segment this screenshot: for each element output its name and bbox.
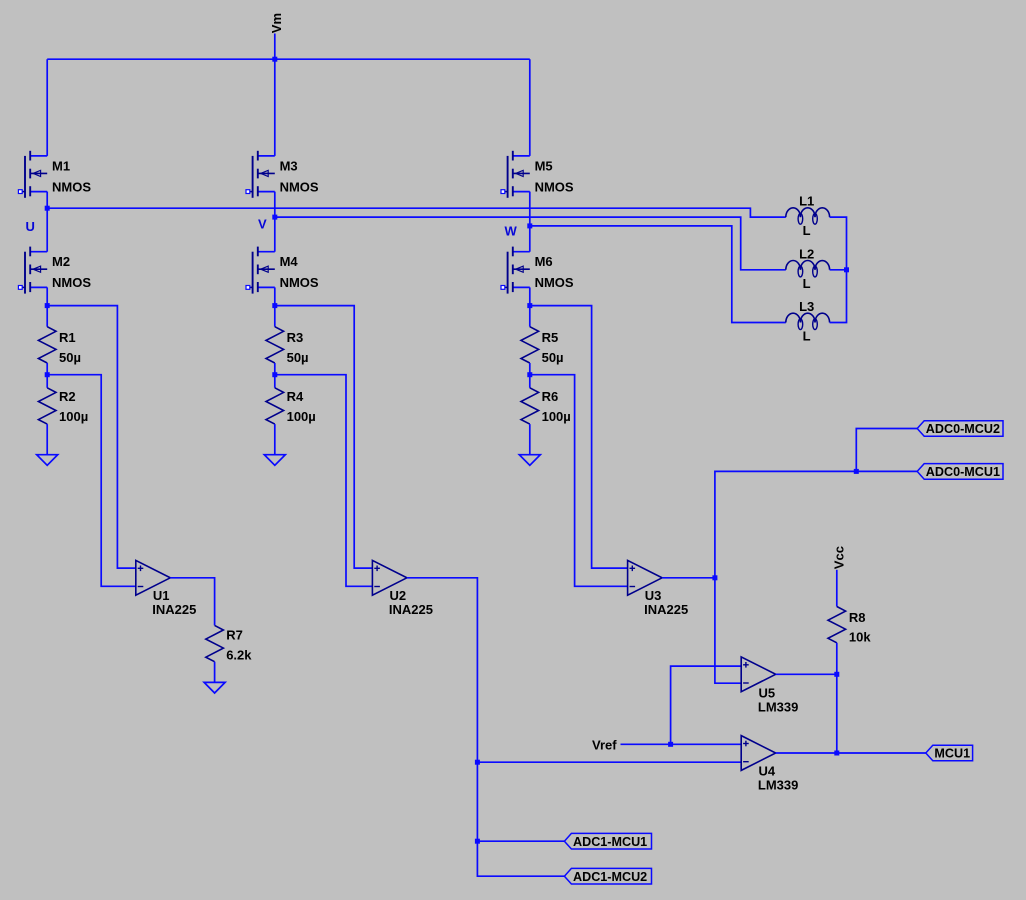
wire R8 bottom lead	[836, 643, 838, 675]
resistor R8	[828, 607, 871, 645]
resistor R3	[266, 327, 309, 366]
wire R3 top lead	[274, 306, 276, 327]
wire phase U to L1	[47, 208, 786, 217]
wire to ADC1-MCU2 flag	[477, 841, 564, 876]
svg-text:NMOS: NMOS	[280, 275, 319, 290]
wire R7 bottom lead	[214, 662, 216, 683]
inductor L2	[786, 246, 830, 291]
ground below R2	[37, 455, 58, 466]
svg-text:M4: M4	[280, 254, 299, 269]
wire R5 top lead	[529, 306, 531, 327]
junction ADC1 branch	[475, 839, 480, 844]
svg-text:U4: U4	[759, 764, 776, 779]
power flag Vm (rotated label)	[269, 13, 284, 33]
svg-text:NMOS: NMOS	[52, 179, 91, 194]
svg-text:ADC0-MCU1: ADC0-MCU1	[926, 465, 1000, 479]
flag ADC1-MCU2	[564, 868, 651, 884]
wire U3 out up to ADC0	[715, 471, 856, 577]
resistor R4	[266, 388, 316, 424]
inductor L3	[786, 299, 830, 344]
junction R5 top node	[527, 303, 532, 308]
wire U5 output	[776, 673, 837, 675]
svg-text:L1: L1	[799, 194, 814, 209]
svg-text:10k: 10k	[849, 630, 871, 645]
svg-text:ADC1-MCU2: ADC1-MCU2	[573, 870, 647, 884]
svg-text:NMOS: NMOS	[280, 179, 319, 194]
junction U5 out / R8	[834, 672, 839, 677]
junction inductor star point	[844, 267, 849, 272]
wire phase V to L2	[275, 217, 786, 270]
wire R1-R2 node to U1 -	[47, 375, 136, 587]
svg-text:LM339: LM339	[758, 699, 798, 714]
wire inductor star bus	[830, 217, 847, 322]
svg-text:L: L	[803, 329, 811, 344]
svg-text:ADC0-MCU2: ADC0-MCU2	[926, 422, 1000, 436]
wire down to ADC1 flags	[476, 762, 478, 841]
transistor M2	[18, 247, 91, 294]
junction U4 out / pullup	[834, 751, 839, 756]
svg-text:100µ: 100µ	[287, 409, 316, 424]
power flag Vcc (rotated label)	[832, 546, 847, 569]
svg-text:MCU1: MCU1	[934, 747, 970, 761]
svg-text:Vm: Vm	[269, 13, 284, 33]
wire Vref up to U5 +	[671, 666, 742, 744]
wire M3 source to node V	[274, 192, 276, 218]
svg-text:NMOS: NMOS	[535, 179, 574, 194]
svg-text:U3: U3	[645, 588, 662, 603]
svg-text:LM339: LM339	[758, 778, 798, 793]
resistor R1	[38, 327, 81, 366]
svg-text:M3: M3	[280, 158, 298, 173]
junction node U	[45, 206, 50, 211]
svg-text:M6: M6	[535, 254, 553, 269]
svg-text:NMOS: NMOS	[52, 275, 91, 290]
wire R5 top to U3 +	[530, 306, 628, 568]
wire Vcc to R8	[836, 570, 838, 607]
svg-text:INA225: INA225	[389, 602, 433, 617]
svg-text:U5: U5	[759, 685, 776, 700]
svg-text:R5: R5	[542, 330, 559, 345]
ground below R7	[204, 682, 225, 693]
transistor M1	[18, 151, 91, 198]
wire Vm tap	[274, 34, 276, 60]
svg-text:ADC1-MCU1: ADC1-MCU1	[573, 835, 647, 849]
flag MCU1	[926, 745, 973, 761]
wire R3 top to U2 +	[275, 306, 373, 568]
label Vref	[592, 737, 617, 752]
wire M4 source	[274, 287, 276, 305]
wire Vref to U4 +	[621, 743, 742, 745]
wire M5 drain	[529, 59, 531, 156]
junction Vm rail / M3 drain	[272, 57, 277, 62]
op-amp U2 INA225	[372, 560, 433, 616]
svg-text:NMOS: NMOS	[535, 275, 574, 290]
node W label	[505, 223, 518, 238]
junction U3 output	[712, 575, 717, 580]
junction R1 top node	[45, 303, 50, 308]
svg-text:R8: R8	[849, 610, 866, 625]
wire R3-R4 link	[274, 363, 276, 388]
svg-text:100µ: 100µ	[59, 409, 88, 424]
wire M6 source	[529, 287, 531, 305]
comparator U5 LM339	[741, 657, 798, 714]
wire U2 output down	[407, 578, 478, 762]
wire M3 drain	[274, 59, 276, 156]
wire R2 bottom lead	[46, 424, 48, 455]
svg-text:R2: R2	[59, 389, 76, 404]
flag ADC1-MCU1	[564, 833, 651, 849]
wire L2 right lead	[830, 269, 847, 271]
svg-text:R3: R3	[287, 330, 304, 345]
wire M5 source to node W	[529, 192, 531, 226]
op-amp U3 INA225	[628, 560, 689, 616]
wire M2 source	[46, 287, 48, 305]
junction R5-R6 node	[527, 372, 532, 377]
junction R3-R4 node	[272, 372, 277, 377]
transistor M6	[501, 247, 574, 294]
svg-text:Vref: Vref	[592, 737, 617, 752]
wire R8 node down to U4 out	[836, 674, 838, 753]
ground below R4	[264, 455, 285, 466]
svg-text:R6: R6	[542, 389, 559, 404]
wire M1 source to node U	[46, 192, 48, 209]
wire R1 top to U1 +	[47, 306, 136, 568]
svg-text:L3: L3	[799, 299, 814, 314]
svg-text:L: L	[803, 276, 811, 291]
junction Vref branch	[668, 742, 673, 747]
junction node W	[527, 223, 532, 228]
wire R6 bottom lead	[529, 424, 531, 455]
transistor M3	[246, 151, 319, 198]
wire R5-R6 link	[529, 363, 531, 388]
svg-text:100µ: 100µ	[542, 409, 571, 424]
svg-text:U: U	[26, 219, 35, 234]
junction ADC0 branch	[854, 469, 859, 474]
wire M1 drain	[46, 59, 48, 156]
wire M2 drain	[46, 208, 48, 252]
svg-text:50µ: 50µ	[542, 350, 564, 365]
wire R5-R6 node to U3 -	[530, 375, 628, 587]
flag ADC0-MCU2	[917, 421, 1003, 437]
svg-text:R7: R7	[226, 627, 243, 642]
svg-text:Vcc: Vcc	[832, 546, 847, 569]
wire R1 top lead	[46, 306, 48, 327]
wire M4 drain	[274, 217, 276, 252]
svg-text:INA225: INA225	[644, 602, 688, 617]
wire to U4 inverting input	[477, 761, 741, 763]
svg-text:M5: M5	[535, 158, 553, 173]
wire to ADC1-MCU1 flag	[477, 840, 564, 842]
junction node V	[272, 215, 277, 220]
svg-text:INA225: INA225	[152, 602, 196, 617]
svg-text:L2: L2	[799, 246, 814, 261]
node V label	[258, 217, 267, 232]
resistor R6	[521, 388, 571, 424]
svg-text:6.2k: 6.2k	[226, 647, 252, 662]
wire to ADC0-MCU1 flag	[856, 470, 917, 472]
node U label	[26, 219, 35, 234]
comparator U4 LM339	[741, 736, 798, 793]
wire R1-R2 link	[46, 363, 48, 388]
svg-text:M2: M2	[52, 254, 70, 269]
wire U3 out down to U5 -	[715, 578, 741, 683]
flag ADC0-MCU1	[917, 464, 1003, 480]
wire phase W to L3	[530, 226, 786, 323]
svg-text:U1: U1	[153, 588, 170, 603]
svg-text:R1: R1	[59, 330, 76, 345]
svg-text:W: W	[505, 223, 518, 238]
transistor M4	[246, 247, 319, 294]
wire to ADC0-MCU2 flag	[856, 429, 917, 472]
resistor R2	[38, 388, 88, 424]
svg-text:U2: U2	[390, 588, 407, 603]
wire R4 bottom lead	[274, 424, 276, 455]
svg-text:V: V	[258, 217, 267, 232]
inductor L1	[786, 194, 830, 239]
junction R3 top node	[272, 303, 277, 308]
wire U4 output to MCU1	[776, 752, 926, 754]
junction U2 out / U4 inverting	[475, 760, 480, 765]
wire U1 output to R7	[170, 578, 214, 626]
wire R3-R4 node to U2 -	[275, 375, 373, 587]
ground below R6	[519, 455, 540, 466]
resistor R7	[206, 625, 252, 662]
op-amp U1 INA225	[136, 560, 197, 616]
svg-text:M1: M1	[52, 158, 70, 173]
svg-text:R4: R4	[287, 389, 304, 404]
wire M6 drain	[529, 226, 531, 252]
wire U3 output	[662, 577, 715, 579]
wire Vm rail	[47, 58, 530, 60]
svg-text:50µ: 50µ	[59, 350, 81, 365]
svg-text:L: L	[803, 223, 811, 238]
transistor M5	[501, 151, 574, 198]
resistor R5	[521, 327, 564, 366]
svg-text:50µ: 50µ	[287, 350, 309, 365]
junction R1-R2 node	[45, 372, 50, 377]
